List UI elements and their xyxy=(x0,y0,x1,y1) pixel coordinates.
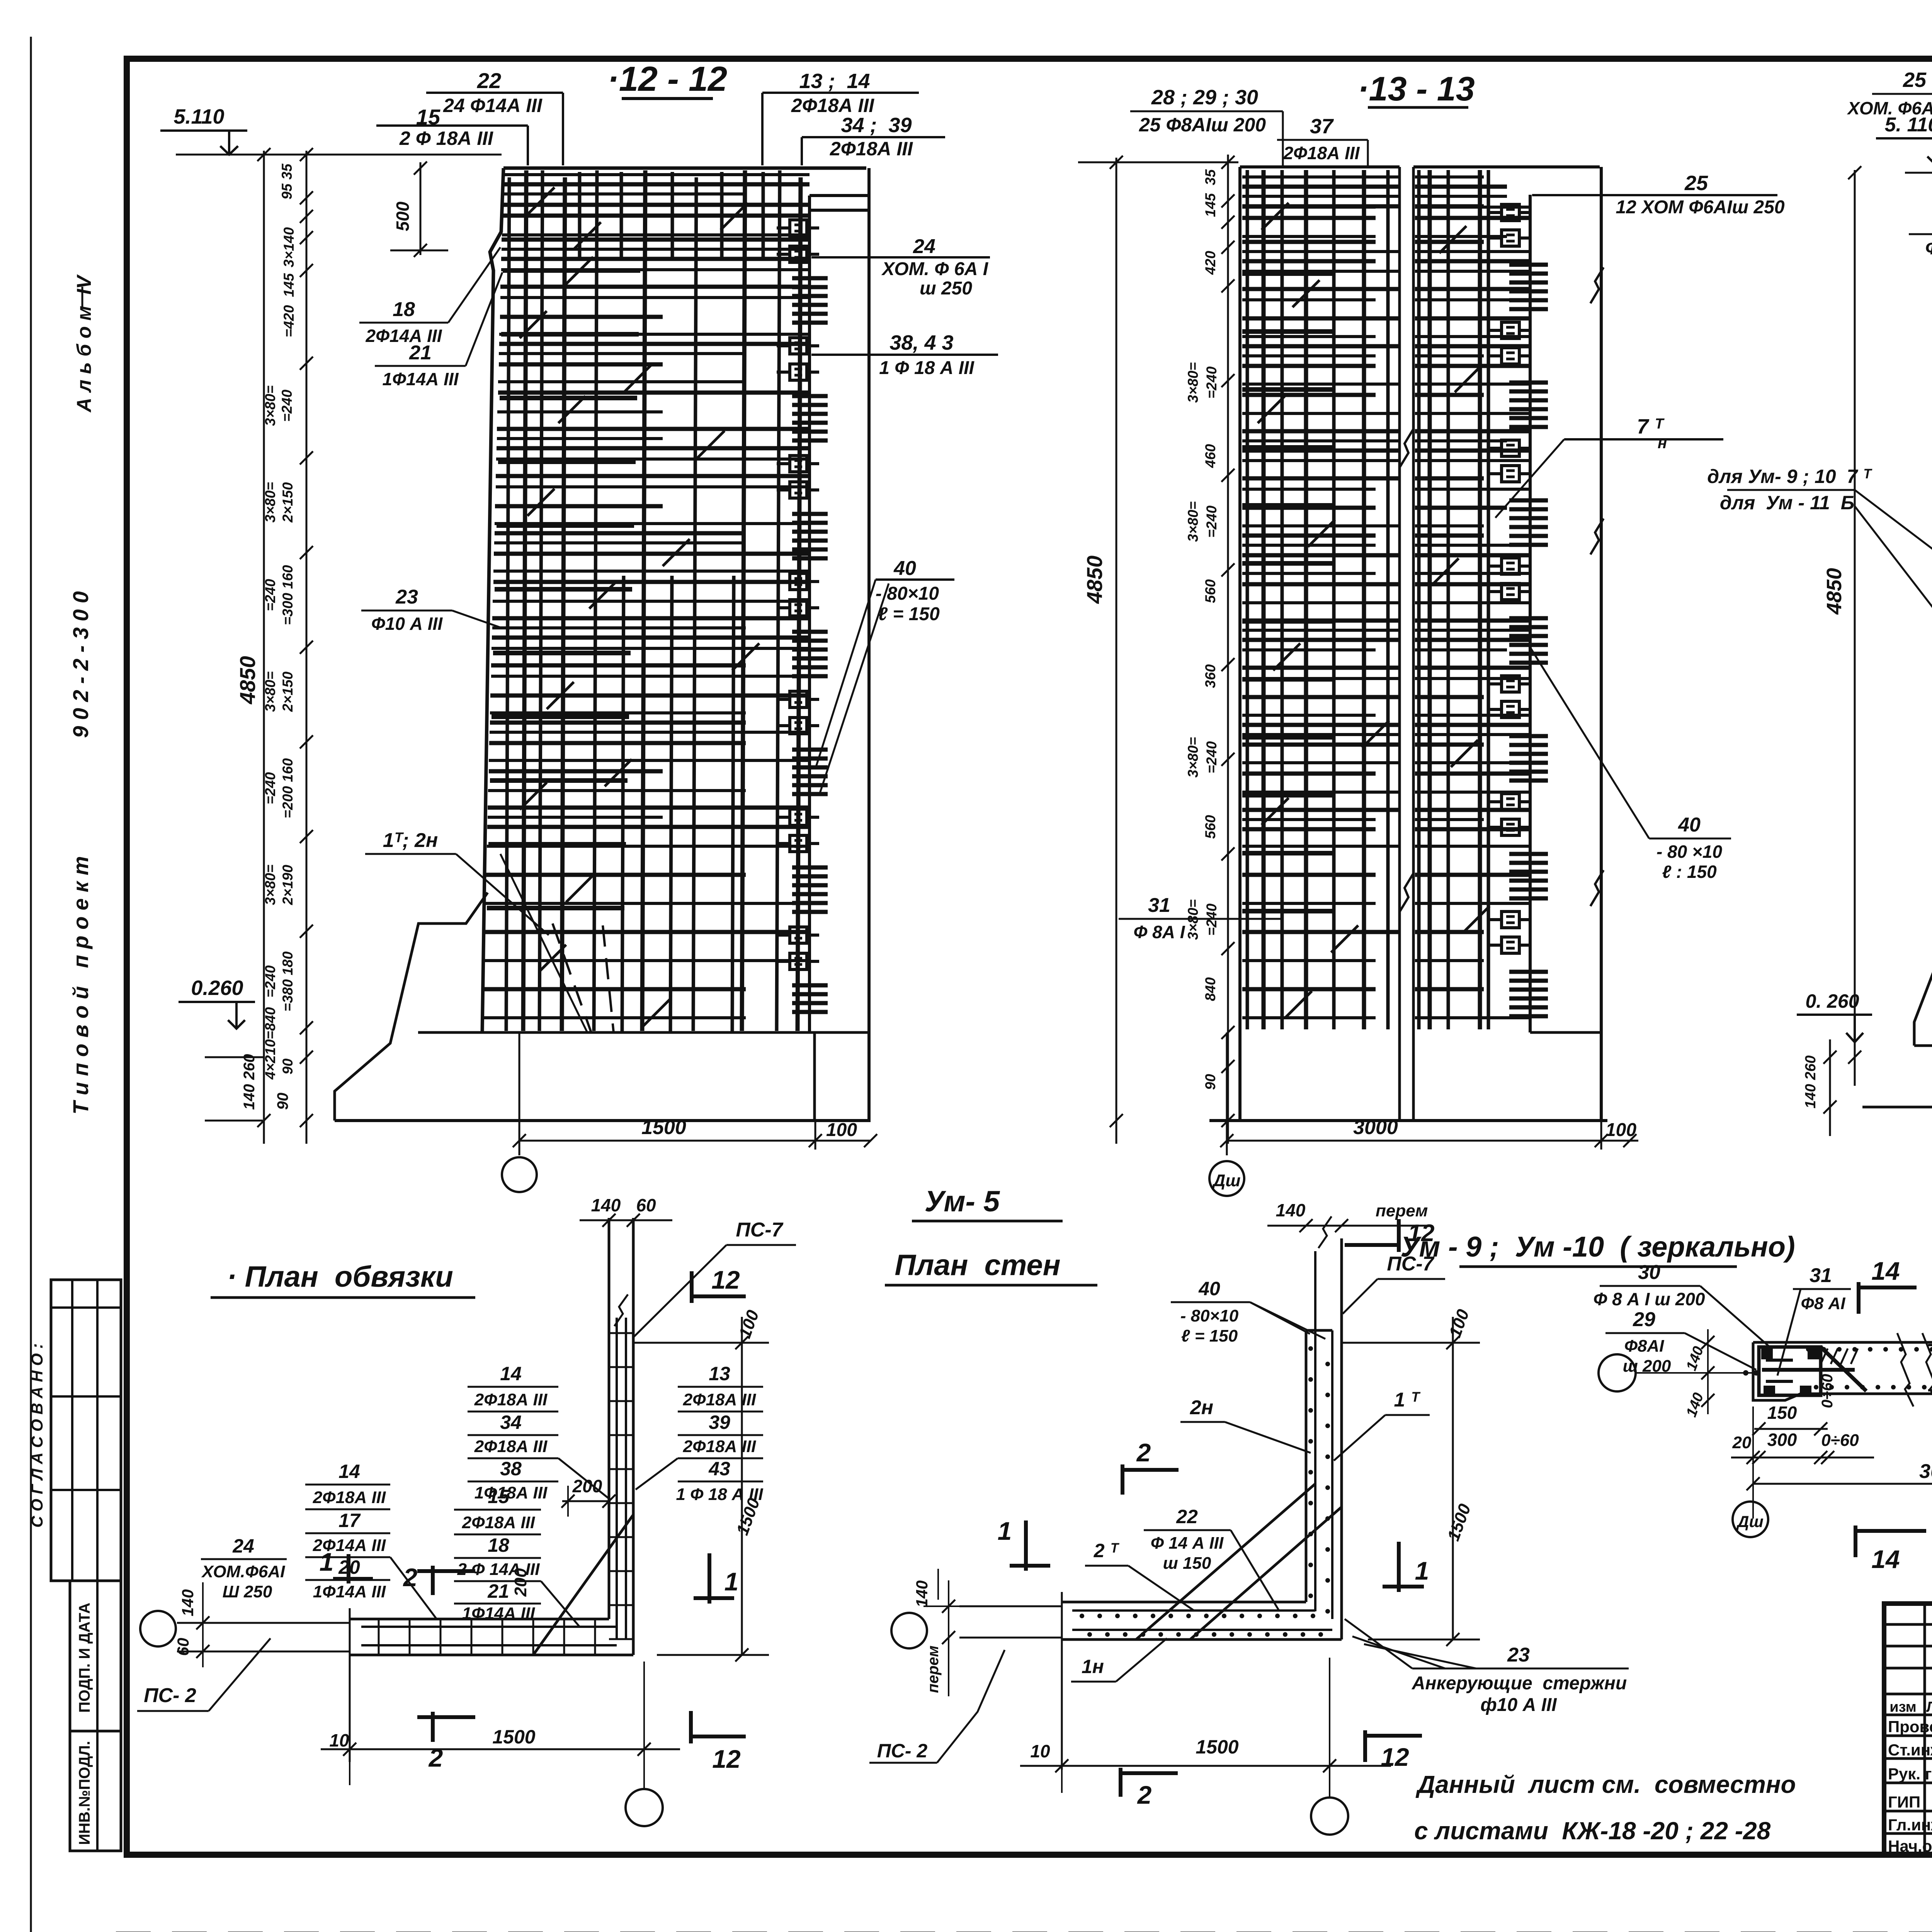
svg-text:21: 21 xyxy=(487,1580,509,1602)
svg-text:Дш: Дш xyxy=(1212,1171,1241,1190)
svg-text:Ф 8А I: Ф 8А I xyxy=(1925,238,1932,259)
plan obvyazki label PS-2 xyxy=(137,1638,270,1711)
svg-text:140: 140 xyxy=(913,1580,931,1607)
svg-text:ПС- 2: ПС- 2 xyxy=(144,1684,196,1707)
svg-text:=240: =240 xyxy=(262,579,278,611)
svg-text:200: 200 xyxy=(511,1568,530,1597)
view 13-13 callout 28;29;30 25F8AIsh200 xyxy=(1130,86,1283,166)
view 12-12 callout 24 hom F6AI sh250 xyxy=(811,235,990,299)
svg-text:140: 140 xyxy=(591,1195,621,1215)
svg-text:для Ум - 11 Б: для Ум - 11 Б xyxy=(1720,492,1854,514)
svg-text:14: 14 xyxy=(338,1461,360,1482)
svg-text:2 ᵀ: 2 ᵀ xyxy=(1094,1540,1120,1561)
svg-text:39: 39 xyxy=(709,1412,730,1433)
svg-text:40: 40 xyxy=(1198,1278,1220,1299)
sidebar box Podp. i data xyxy=(70,1581,121,1731)
Um-5 dims right 100 1500 xyxy=(1342,1307,1480,1646)
svg-text:90: 90 xyxy=(280,1058,296,1075)
svg-text:4×210=840: 4×210=840 xyxy=(262,1007,278,1080)
svg-text:23: 23 xyxy=(395,586,418,608)
svg-text:3×80=: 3×80= xyxy=(262,386,278,426)
plan obvyazki section 12 bottom xyxy=(691,1711,746,1773)
view 12-12 dim 500 xyxy=(390,162,448,257)
svg-text:·13 - 13: ·13 - 13 xyxy=(1357,70,1475,108)
svg-text:12 ХОМ Ф6АIш 250: 12 ХОМ Ф6АIш 250 xyxy=(1616,197,1784,218)
Um-5 section 12 top xyxy=(1345,1219,1434,1252)
svg-text:Ф 8А I: Ф 8А I xyxy=(1133,922,1185,942)
svg-text:34: 34 xyxy=(500,1412,522,1433)
svg-text:2Ф18А III: 2Ф18А III xyxy=(462,1513,535,1532)
svg-text:2Ф18А III: 2Ф18А III xyxy=(830,138,913,160)
svg-text:3×80=: 3×80= xyxy=(262,672,278,712)
svg-text:95 35: 95 35 xyxy=(279,163,295,199)
svg-text:=240: =240 xyxy=(279,389,295,422)
svg-text:25 Ф8АIш 200: 25 Ф8АIш 200 xyxy=(1139,114,1266,136)
svg-text:ш 150: ш 150 xyxy=(1163,1554,1211,1573)
Um-5 label PS-2 xyxy=(869,1650,1005,1763)
Um-5 callout 22 F14AIII sh150 xyxy=(1144,1506,1279,1611)
view 12-12 callout 40 -80x10 e150 xyxy=(815,557,954,795)
view 14-14 level 5.110 xyxy=(1876,114,1932,173)
svg-text:=420 145: =420 145 xyxy=(281,273,297,337)
svg-text:2Ф18А III: 2Ф18А III xyxy=(683,1437,756,1456)
plan obvyazki axis circles xyxy=(140,1611,927,1826)
svg-text:=240: =240 xyxy=(262,965,278,998)
svg-text:=380 180: =380 180 xyxy=(280,951,296,1012)
svg-text:840: 840 xyxy=(1202,977,1218,1001)
plan obvyazki section 1 right xyxy=(694,1553,738,1604)
plan obvyazki dims 140 60 top xyxy=(580,1195,672,1227)
view 12-12 callout 13;14 2F18AIII xyxy=(762,70,919,165)
svg-text:Ф10 А III: Ф10 А III xyxy=(371,614,443,634)
svg-text:3×80=: 3×80= xyxy=(1185,502,1201,542)
view 14-14 callout 42 F8AI xyxy=(1909,201,1932,259)
svg-text:ГИП: ГИП xyxy=(1888,1793,1920,1811)
view 14-14 leader dlya Um xyxy=(1855,490,1932,734)
svg-text:460: 460 xyxy=(1202,444,1218,468)
plan obvyazki right dims 100 1500 xyxy=(633,1308,769,1662)
svg-text:40: 40 xyxy=(893,557,916,580)
view 13-13 ladder small labels xyxy=(1185,169,1219,1090)
svg-text:12: 12 xyxy=(1381,1743,1409,1771)
svg-text:21: 21 xyxy=(409,342,432,364)
svg-text:24: 24 xyxy=(232,1535,254,1557)
svg-text:60: 60 xyxy=(174,1638,192,1656)
svg-text:360: 360 xyxy=(1202,664,1218,688)
svg-text:=200 160: =200 160 xyxy=(280,758,296,818)
Um-5 bottom dims 10 1500 xyxy=(1020,1658,1391,1797)
svg-text:ш 250: ш 250 xyxy=(920,278,972,299)
svg-text:Данный лист см. совместно: Данный лист см. совместно xyxy=(1415,1770,1796,1798)
svg-text:13: 13 xyxy=(709,1363,730,1384)
Um-9 section 14 bottom xyxy=(1855,1526,1926,1573)
svg-text:с листами КЖ-18 -20 ; 22 -28: с листами КЖ-18 -20 ; 22 -28 xyxy=(1414,1817,1771,1845)
svg-text:3×80=: 3×80= xyxy=(1185,362,1201,403)
Um-5 callout 23 ankeruyushchie xyxy=(1345,1619,1629,1715)
svg-text:Ф 14 А III: Ф 14 А III xyxy=(1151,1534,1224,1553)
view 12-12 callout 23 F10AIII xyxy=(361,586,502,634)
plan obvyazki callout stack 14-17-20 xyxy=(305,1461,437,1619)
svg-text:2×150: 2×150 xyxy=(280,672,296,712)
view 12-12 callout 21 1F14AIII xyxy=(375,272,502,389)
Um-5 callout 40 -80x10 e150 xyxy=(1171,1278,1325,1345)
view 13-13 title xyxy=(1357,70,1475,108)
svg-text:3000: 3000 xyxy=(1919,1460,1932,1483)
Um-9 callout 29 xyxy=(1605,1308,1756,1376)
svg-text:25: 25 xyxy=(1903,68,1927,92)
svg-text:·12 - 12: ·12 - 12 xyxy=(607,60,727,99)
title block grid xyxy=(1884,1604,1932,1855)
svg-text:17: 17 xyxy=(338,1510,361,1531)
Um-5 label PS-7 xyxy=(1343,1253,1445,1314)
svg-text:=240: =240 xyxy=(262,772,278,804)
svg-text:43: 43 xyxy=(708,1458,730,1480)
svg-text:3×140: 3×140 xyxy=(281,227,297,267)
svg-text:Нач.отд.: Нач.отд. xyxy=(1888,1837,1932,1855)
Um-9 axis circle left xyxy=(1599,1354,1759,1391)
svg-text:34 ; 39: 34 ; 39 xyxy=(841,114,912,137)
view 12-12 axis dimension 1500 100 xyxy=(513,1032,877,1155)
svg-text:1500: 1500 xyxy=(492,1726,535,1748)
Um-9 dims 140 140 left xyxy=(1683,1329,1714,1419)
svg-text:0÷60: 0÷60 xyxy=(1819,1374,1836,1408)
svg-text:140: 140 xyxy=(179,1589,197,1616)
svg-text:Гл.инж.отд: Гл.инж.отд xyxy=(1888,1816,1932,1834)
svg-text:Ум- 5: Ум- 5 xyxy=(925,1185,1000,1218)
svg-text:перем: перем xyxy=(1376,1201,1428,1220)
view 14-14 foundation xyxy=(1914,878,1932,1049)
svg-text:Дш: Дш xyxy=(1736,1512,1764,1531)
sidebar rotated text Tipovoy proekt xyxy=(68,856,93,1115)
sidebar rotated text Soglasovano xyxy=(28,1344,46,1528)
svg-text:31: 31 xyxy=(1810,1264,1832,1287)
svg-text:ПС- 2: ПС- 2 xyxy=(877,1740,928,1762)
svg-text:1 ᵀ: 1 ᵀ xyxy=(1394,1389,1421,1411)
plan obvyazki title xyxy=(211,1260,475,1298)
view 13-13 left dimension ladder xyxy=(1078,155,1238,1144)
svg-text:18: 18 xyxy=(393,298,415,321)
svg-text:Ст.инж.: Ст.инж. xyxy=(1888,1741,1932,1759)
svg-text:145 35: 145 35 xyxy=(1202,169,1218,217)
svg-text:4850: 4850 xyxy=(235,656,260,705)
view 12-12 level mark 5.110 xyxy=(160,105,247,155)
svg-text:1н: 1н xyxy=(1082,1656,1104,1677)
Um-9 dim 150 xyxy=(1752,1403,1828,1435)
svg-text:1500: 1500 xyxy=(641,1116,686,1139)
svg-text:для Ум- 9 ; 10 7 ᵀ: для Ум- 9 ; 10 7 ᵀ xyxy=(1707,466,1872,487)
view 13-13 note dlya Um xyxy=(1707,466,1872,514)
view 12-12 right edge anchor plates and hooks xyxy=(777,216,869,1032)
svg-text:140: 140 xyxy=(1276,1200,1306,1220)
svg-text:29: 29 xyxy=(1633,1308,1655,1331)
svg-text:10: 10 xyxy=(329,1730,349,1750)
plan obvyazki callout 24 hom xyxy=(201,1535,350,1619)
svg-text:37: 37 xyxy=(1310,115,1334,138)
svg-text:ИНВ.№ПОДЛ.: ИНВ.№ПОДЛ. xyxy=(76,1741,93,1845)
svg-text:20: 20 xyxy=(1732,1433,1752,1452)
Um-5 L-strip xyxy=(959,1216,1342,1770)
plan obvyazki section 2 marks xyxy=(403,1563,475,1772)
svg-text:ℓ : 150: ℓ : 150 xyxy=(1662,862,1717,882)
svg-text:4850: 4850 xyxy=(1823,568,1846,615)
view 12-12 wall outline xyxy=(482,168,869,1121)
Um-5 axis circle bottom xyxy=(1311,1798,1348,1835)
svg-text:14: 14 xyxy=(1871,1257,1900,1285)
view 14-14 ground line xyxy=(1862,889,1932,1157)
svg-text:10: 10 xyxy=(1030,1741,1050,1761)
svg-text:1Ф14А III: 1Ф14А III xyxy=(382,369,459,389)
Um-9 beam outline xyxy=(1753,1329,1932,1410)
sidebar box Inv N podl xyxy=(70,1731,121,1851)
svg-text:План стен: План стен xyxy=(895,1249,1060,1282)
svg-text:2: 2 xyxy=(1136,1438,1151,1467)
svg-text:140 260: 140 260 xyxy=(241,1054,258,1110)
sidebar rotated text Album IV xyxy=(73,274,95,413)
svg-text:9 0 2 - 2 - 3 0 0: 9 0 2 - 2 - 3 0 0 xyxy=(68,591,93,738)
svg-text:Т и п о в о й п р о е к т: Т и п о в о й п р о е к т xyxy=(68,856,93,1115)
svg-text:ℓ = 150: ℓ = 150 xyxy=(1181,1327,1238,1345)
svg-text:1 Ф 18 А III: 1 Ф 18 А III xyxy=(879,358,975,378)
view 12-12 callout 34;39 2F18AIII xyxy=(802,114,945,165)
svg-text:Анкерующие стержни: Анкерующие стержни xyxy=(1412,1673,1627,1694)
Um-5 labels 2n 1T xyxy=(1180,1389,1430,1461)
svg-text:Проверил: Проверил xyxy=(1888,1718,1932,1736)
svg-text:22: 22 xyxy=(1176,1506,1198,1527)
view 13-13 rebar grid xyxy=(1242,170,1530,1029)
svg-text:40: 40 xyxy=(1678,814,1701,836)
svg-text:28 ; 29 ; 30: 28 ; 29 ; 30 xyxy=(1151,86,1258,109)
Um-9 dim 3000 100 xyxy=(1747,1333,1932,1519)
svg-text:ХОМ.Ф6АI: ХОМ.Ф6АI xyxy=(201,1562,285,1581)
svg-text:38, 4 3: 38, 4 3 xyxy=(889,331,953,354)
svg-text:2Ф18А III: 2Ф18А III xyxy=(474,1437,548,1456)
view 13-13 wall outlines xyxy=(1240,167,1604,1121)
svg-text:2Ф18А III: 2Ф18А III xyxy=(683,1390,756,1409)
view 13-13 right edge plates and hooks xyxy=(1488,195,1601,1032)
svg-text:2Ф18А III: 2Ф18А III xyxy=(474,1390,548,1409)
svg-text:Ф8АI: Ф8АI xyxy=(1624,1337,1665,1355)
svg-text:1500: 1500 xyxy=(1196,1736,1238,1758)
view 13-13 base and dims xyxy=(1209,1032,1638,1155)
svg-text:=240: =240 xyxy=(1204,505,1219,538)
svg-text:2Ф18А III: 2Ф18А III xyxy=(791,95,874,116)
Um-5 left dims 140 perem xyxy=(913,1569,959,1696)
view 12-12 left dimension ladder xyxy=(176,148,502,1144)
svg-text:1: 1 xyxy=(1415,1556,1429,1585)
svg-text:150: 150 xyxy=(1767,1403,1797,1423)
view 12-12 callout 22 24F14AIII xyxy=(426,68,563,165)
svg-text:изм: изм xyxy=(1889,1699,1916,1715)
Um-9 circle Dsh xyxy=(1733,1502,1768,1537)
svg-text:140 260: 140 260 xyxy=(1803,1055,1819,1108)
svg-text:2×190: 2×190 xyxy=(280,865,296,905)
svg-text:420: 420 xyxy=(1202,251,1218,275)
svg-text:200: 200 xyxy=(572,1476,602,1496)
Um-9 dims 20 300 0-60 xyxy=(1731,1368,1874,1464)
svg-text:1: 1 xyxy=(998,1517,1012,1545)
svg-text:2Ф18А III: 2Ф18А III xyxy=(313,1488,386,1507)
svg-text:2 Ф 18А III: 2 Ф 18А III xyxy=(399,128,493,149)
svg-text:12: 12 xyxy=(711,1265,740,1294)
svg-text:0.260: 0.260 xyxy=(191,976,243,1000)
view 12-12 callout 1T 2n xyxy=(365,829,587,1032)
plan obvyazki dim 200 xyxy=(561,1476,616,1517)
view 13-13 callout 25 12 hom F6AIsh250 xyxy=(1532,172,1785,218)
view 14-14 dim 4850 right xyxy=(1823,166,1861,1086)
view 13-13 level 0.260 xyxy=(1797,990,1872,1136)
svg-text:22: 22 xyxy=(477,68,501,93)
svg-text:25: 25 xyxy=(1684,172,1708,195)
view 12-12 ladder small labels xyxy=(262,163,297,1080)
note danny list xyxy=(1414,1770,1796,1845)
plan obvyazki bottom dim 10 1500 xyxy=(321,1662,680,1789)
plan obvyazki L-strip xyxy=(177,1218,633,1762)
svg-text:1Ф14А III: 1Ф14А III xyxy=(313,1582,386,1601)
plan obvyazki dim 200 vertical xyxy=(511,1546,537,1619)
plan obvyazki label PS-7 xyxy=(634,1219,796,1337)
svg-text:Ф 8 А I ш 200: Ф 8 А I ш 200 xyxy=(1593,1289,1705,1309)
svg-text:560: 560 xyxy=(1202,579,1218,603)
svg-text:2Ф14А III: 2Ф14А III xyxy=(313,1536,386,1555)
svg-text:4850: 4850 xyxy=(1082,556,1107,604)
view 12-12 axis circle xyxy=(502,1157,537,1192)
Um-5 dims 140 perem top xyxy=(1267,1200,1430,1330)
svg-text:- 80 ×10: - 80 ×10 xyxy=(1656,842,1722,862)
svg-text:560: 560 xyxy=(1202,815,1218,839)
svg-text:Рук. гр.: Рук. гр. xyxy=(1888,1765,1932,1783)
svg-text:Лист: Лист xyxy=(1926,1699,1932,1715)
view 12-12 foundation xyxy=(335,893,871,1121)
svg-text:- 80×10: - 80×10 xyxy=(1180,1306,1239,1325)
title block signature rows xyxy=(1888,1698,1932,1855)
svg-text:С О Г Л А С О В А Н О :: С О Г Л А С О В А Н О : xyxy=(28,1344,46,1528)
plan sten title xyxy=(885,1249,1097,1285)
Um-5 section 2 marks xyxy=(1121,1438,1179,1809)
svg-text:=240: =240 xyxy=(1204,741,1219,774)
view 13-13 callout 7T/n xyxy=(1495,415,1723,518)
Um-9 callout 31 xyxy=(1777,1264,1851,1376)
Um-5 section 1 marks xyxy=(998,1517,1429,1592)
sidebar stamp table upper xyxy=(51,1280,121,1581)
svg-text:3×80=: 3×80= xyxy=(262,865,278,905)
view 12-12 level mark 0.260 xyxy=(179,976,264,1121)
svg-text:14: 14 xyxy=(1871,1545,1900,1573)
svg-text:А л ь б о м IV: А л ь б о м IV xyxy=(73,274,95,413)
svg-text:ф10 А III: ф10 А III xyxy=(1480,1695,1557,1715)
svg-text:ХОМ. Ф 6А I: ХОМ. Ф 6А I xyxy=(881,259,989,279)
svg-text:90: 90 xyxy=(274,1093,291,1110)
svg-text:перем: перем xyxy=(925,1646,942,1693)
svg-text:24: 24 xyxy=(913,235,935,258)
svg-text:н: н xyxy=(1658,435,1667,452)
svg-text:30: 30 xyxy=(1638,1261,1660,1284)
svg-text:2: 2 xyxy=(1137,1781,1152,1809)
svg-text:2н: 2н xyxy=(1190,1396,1213,1419)
svg-text:Ум - 9 ; Ум -10 ( зеркально): Ум - 9 ; Ум -10 ( зеркально) xyxy=(1400,1231,1795,1263)
svg-text:60: 60 xyxy=(636,1195,656,1215)
svg-text:500: 500 xyxy=(393,201,413,231)
svg-text:1: 1 xyxy=(724,1567,739,1596)
svg-text:1Ф18А III: 1Ф18А III xyxy=(474,1483,548,1502)
Um-5 label 2T xyxy=(1085,1540,1194,1611)
svg-text:3000: 3000 xyxy=(1353,1116,1398,1139)
view 14-14 callout 25 hom F6AIsh250 xyxy=(1847,68,1932,178)
svg-text:2Ф18А III: 2Ф18А III xyxy=(1283,143,1360,163)
svg-text:23: 23 xyxy=(1507,1644,1530,1666)
svg-text:18: 18 xyxy=(488,1534,509,1556)
svg-text:24 Ф14А III: 24 Ф14А III xyxy=(443,95,543,116)
svg-text:12: 12 xyxy=(712,1745,741,1773)
svg-text:Ш 250: Ш 250 xyxy=(223,1582,272,1601)
svg-text:3×80=: 3×80= xyxy=(1185,737,1201,778)
svg-text:ПС-7: ПС-7 xyxy=(736,1219,783,1241)
svg-text:13 ; 14: 13 ; 14 xyxy=(799,70,870,93)
plan obvyazki section 1 mid xyxy=(320,1548,373,1583)
svg-text:3×80=: 3×80= xyxy=(262,482,278,523)
sidebar rotated text 902-2-300 xyxy=(68,591,93,738)
svg-text:31: 31 xyxy=(1148,894,1170,917)
svg-text:100: 100 xyxy=(826,1120,857,1140)
view 12-12 title xyxy=(607,60,727,99)
svg-text:1Ф14А III: 1Ф14А III xyxy=(462,1604,535,1623)
svg-text:1ᵀ; 2н: 1ᵀ; 2н xyxy=(383,829,438,852)
Um-5 section 12 bottom xyxy=(1365,1730,1422,1771)
plan obvyazki callout stack 14-34-38 xyxy=(468,1363,610,1502)
svg-text:20: 20 xyxy=(338,1556,360,1578)
plan obvyazki left dims 140 60 xyxy=(174,1582,237,1667)
svg-text:2: 2 xyxy=(428,1743,443,1772)
svg-text:0. 260: 0. 260 xyxy=(1805,990,1859,1012)
svg-text:300: 300 xyxy=(1767,1430,1797,1450)
view 13-13 callout 31 F8AI xyxy=(1119,894,1283,942)
svg-text:=240: =240 xyxy=(1204,366,1219,399)
view 12-12 callout 38,43 1F18AIII xyxy=(811,331,998,378)
svg-text:0÷60: 0÷60 xyxy=(1821,1431,1859,1450)
svg-text:5.110: 5.110 xyxy=(173,105,224,128)
view 12-12 callout 18 2F14AIII xyxy=(359,247,500,346)
svg-text:=300 160: =300 160 xyxy=(280,565,296,625)
svg-text:38: 38 xyxy=(500,1458,522,1480)
svg-text:Ф8 АI: Ф8 АI xyxy=(1801,1294,1845,1313)
Um-9 section 14 top xyxy=(1859,1257,1917,1314)
plan obvyazki callout stack 15-18-21 xyxy=(454,1486,580,1627)
svg-text:· План обвязки: · План обвязки xyxy=(227,1260,453,1293)
Um-9 Um-10 title xyxy=(1400,1231,1795,1267)
plan obvyazki section 12 top xyxy=(692,1265,746,1303)
Um-5 label 1n xyxy=(1071,1638,1167,1682)
svg-text:ПОДП. И ДАТА: ПОДП. И ДАТА xyxy=(76,1603,93,1713)
svg-text:2×150: 2×150 xyxy=(280,482,296,523)
Um-9 callout 30 xyxy=(1593,1261,1770,1347)
svg-text:14: 14 xyxy=(500,1363,522,1384)
view 13-13 callout 40 -80x10 e150 xyxy=(1529,646,1731,882)
plan obvyazki callout stack 13-39-43 xyxy=(636,1363,763,1504)
svg-text:ℓ = 150: ℓ = 150 xyxy=(878,604,940,624)
svg-text:100: 100 xyxy=(1605,1120,1636,1140)
view 13-13 axis circle Dsh xyxy=(1209,1161,1244,1196)
svg-text:90: 90 xyxy=(1202,1074,1218,1090)
view 12-12 callout 15 2F18AIII xyxy=(376,105,528,165)
svg-text:ХОМ. Ф6АIш. 250: ХОМ. Ф6АIш. 250 xyxy=(1847,98,1932,118)
view 13-13 callout 37 2F18AIII xyxy=(1277,115,1368,166)
Um-5 title xyxy=(912,1185,1063,1221)
view 12-12 rebar grid xyxy=(483,170,810,1032)
